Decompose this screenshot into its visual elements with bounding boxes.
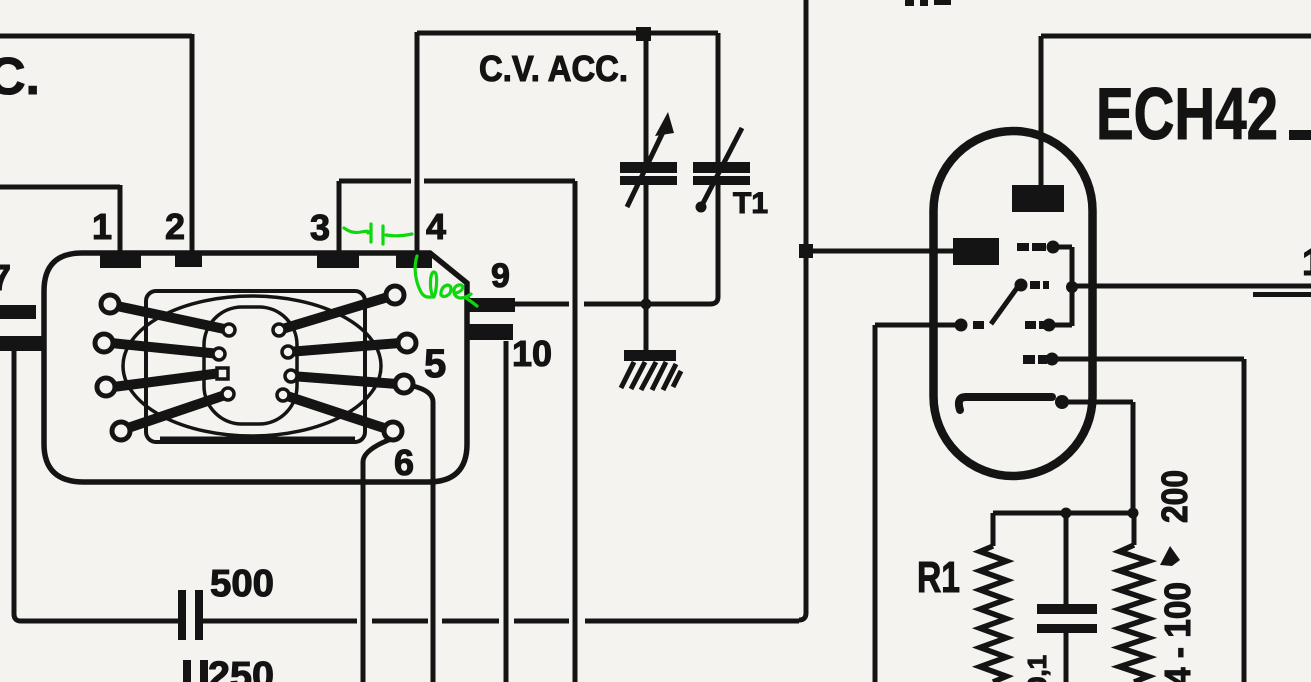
- svg-text:ECH42: ECH42: [1096, 74, 1278, 155]
- node bus R1 / C / R200: [993, 511, 1136, 516]
- switch spokes: [111, 297, 400, 429]
- switch outer contacts: [95, 286, 416, 440]
- top edge text remnants: [905, 0, 914, 6]
- resistor 200 lead: [1132, 513, 1137, 545]
- wire pin 9 to ground node: [515, 302, 650, 307]
- switch rotor rivets: [213, 324, 297, 401]
- variable capacitor C.V. upper lead: [644, 33, 649, 163]
- wire horizontal pin3 to riser x575: [339, 179, 575, 184]
- trimmer T1 plates: [693, 162, 750, 173]
- variable capacitor C.V. arrow: [627, 130, 664, 207]
- svg-text:10: 10: [512, 333, 552, 374]
- svg-text:C.V. ACC.: C.V. ACC.: [479, 48, 628, 89]
- tube grid-3 plate: [953, 238, 999, 265]
- thick underline right of triode anode wire: [1253, 292, 1311, 297]
- wire x575 vertical down: [573, 181, 578, 682]
- pin 8 pad: [0, 336, 42, 351]
- svg-text:6: 6: [394, 442, 414, 483]
- capacitor 500 plates: [178, 590, 203, 640]
- svg-text:200: 200: [1154, 470, 1195, 523]
- green annotation Ube below pin 4: [415, 256, 477, 306]
- svg-text:4 - 100: 4 - 100: [1157, 582, 1198, 682]
- trimmer T1 lower lead with corner: [646, 185, 718, 304]
- tube anode top lead: [1039, 36, 1044, 186]
- tube anode plate: [1012, 185, 1064, 212]
- tube right bracket vertical: [1070, 247, 1075, 326]
- wire top right horizontal: [1041, 34, 1311, 39]
- svg-text:1: 1: [1302, 242, 1311, 284]
- tube row1 link: [1053, 245, 1072, 250]
- variable capacitor C.V. lower lead: [644, 185, 649, 303]
- svg-text:R1: R1: [917, 553, 960, 602]
- inner wafer rect bottom edge thickening: [160, 437, 355, 442]
- svg-text:7: 7: [0, 257, 11, 298]
- switch inner wafer rectangle: [146, 291, 365, 442]
- tube row3 grid dashes: [955, 319, 968, 332]
- node dots: [1061, 508, 1072, 519]
- wire horizontal to triode grid dot: [875, 323, 958, 328]
- wire cathode out right: [1062, 400, 1133, 405]
- svg-text:1: 1: [92, 206, 112, 247]
- wire pin 1 riser: [118, 185, 123, 256]
- wire triode anode out right: [1072, 284, 1311, 289]
- capacitor 0,1 plates: [1037, 604, 1097, 633]
- svg-text:0,1: 0,1: [1022, 655, 1052, 682]
- wire pentode grid2 out right: [1052, 357, 1244, 362]
- wire from contact 5 down: [413, 386, 433, 682]
- wire 500 bus horizontal with hop gaps: [203, 619, 799, 624]
- tube row3 link: [1049, 323, 1072, 328]
- svg-text:9: 9: [491, 257, 510, 295]
- resistor 200 zigzag: [1120, 545, 1149, 682]
- junction dot on top wire: [636, 27, 651, 41]
- pin 9 pad: [466, 298, 515, 312]
- tube row1 grid dashes: [1017, 243, 1029, 251]
- switch wafer circle: [123, 296, 381, 436]
- pin 10 pad: [466, 324, 513, 340]
- wire top-left horizontal to pin 2 riser: [0, 34, 192, 39]
- T1 arrow dot: [696, 202, 707, 213]
- label squiggle between 100 and 200: [1160, 546, 1180, 566]
- pin 4 pad: [396, 254, 432, 268]
- resistor R1 zigzag: [980, 546, 1007, 682]
- ground hatching: [621, 362, 681, 390]
- wire left horizontal to pin 1 riser: [0, 185, 120, 190]
- wire tall vertical x806 from top, corner to 500 bus: [799, 0, 806, 620]
- svg-text:4: 4: [426, 206, 446, 247]
- wire cathode drop x1133: [1131, 402, 1136, 513]
- resistor R1 lead: [991, 513, 996, 546]
- pin 3 pad: [317, 254, 359, 268]
- tube row2 grid dashes: [1015, 279, 1028, 292]
- svg-text:3: 3: [310, 207, 330, 248]
- switch S1 body outline: [44, 253, 467, 482]
- trimmer T1 upper lead: [716, 33, 721, 163]
- svg-text:2: 2: [165, 206, 185, 247]
- junction dot 9-wire / ground: [641, 299, 652, 310]
- svg-text:T1: T1: [733, 187, 768, 220]
- tube cathode dot: [1055, 395, 1069, 409]
- svg-text:C.: C.: [0, 48, 40, 106]
- pin 7 pad: [0, 305, 36, 319]
- wire pin 4 riser: [415, 32, 420, 254]
- ground bar: [624, 350, 676, 361]
- svg-text:5: 5: [424, 342, 446, 386]
- wire left vertical to 500 line: [14, 345, 178, 621]
- capacitor 0,1 upper lead: [1064, 513, 1069, 604]
- wire pin 10 vertical down: [504, 341, 509, 682]
- tube diagonal grid link: [991, 288, 1017, 324]
- wire pin 3 riser: [337, 181, 342, 256]
- pin 2 pad: [175, 254, 202, 267]
- svg-text:250: 250: [208, 655, 274, 682]
- variable capacitor C.V. plates: [620, 162, 677, 173]
- wire junction x806 to tube grid: [806, 249, 956, 254]
- ECH42 trailing underscore: [1289, 130, 1311, 140]
- capacitor 0,1 lower lead: [1064, 633, 1069, 682]
- capacitor 250 plates: [183, 660, 208, 682]
- junction blob x806: [799, 244, 813, 258]
- green annotation capacitor sketch between pins 3 and 4: [344, 224, 412, 244]
- tube ECH42 envelope: [934, 131, 1093, 476]
- trimmer T1 arrow: [700, 128, 742, 209]
- wire x875 vertical (triode grid): [873, 325, 878, 682]
- wire pin 2 riser: [190, 34, 195, 256]
- tube cathode bar: [959, 397, 1052, 410]
- wire x1244 vertical down: [1242, 359, 1247, 682]
- switch rotor cam: [204, 307, 297, 424]
- pin 1 pad: [100, 254, 141, 268]
- wire top horizontal C.V. section: [417, 31, 718, 36]
- wire from contact 6 down: [363, 439, 391, 682]
- C.V. arrowhead: [655, 112, 674, 136]
- svg-text:500: 500: [210, 563, 274, 605]
- ground lead: [644, 304, 649, 352]
- tube row4 grid dashes: [1023, 355, 1035, 364]
